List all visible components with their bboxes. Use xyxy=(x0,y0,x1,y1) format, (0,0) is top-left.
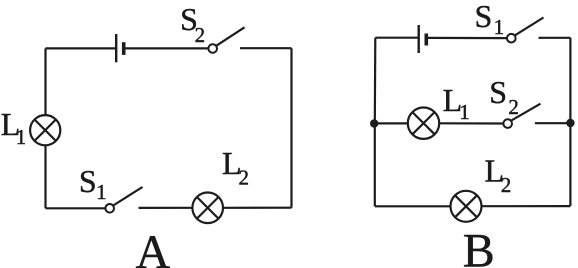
wire B middle (lamp L1 to switch S2) xyxy=(439,122,503,124)
label S1 (circuit A) xyxy=(79,163,107,204)
wire A top (battery to switch S2) xyxy=(126,47,209,49)
switch S1 (circuit B) xyxy=(507,18,544,43)
label S2 (circuit A) xyxy=(180,1,205,47)
wire A bottom-left (corner to switch S1) xyxy=(46,207,106,209)
junction dot left (circuit B) xyxy=(370,119,378,127)
wire A top-right (switch to corner) xyxy=(240,47,292,49)
label L2 (circuit A) xyxy=(222,145,249,190)
svg-text:1: 1 xyxy=(459,100,470,124)
svg-text:1: 1 xyxy=(494,15,505,39)
svg-text:1: 1 xyxy=(96,180,107,204)
switch S1 (circuit A) xyxy=(105,187,142,213)
switch S2 (circuit B) xyxy=(503,104,540,128)
label L1 (circuit A) xyxy=(1,106,27,149)
label L2 (circuit B) xyxy=(485,153,512,197)
wire B bottom-right (corner to lamp L2) xyxy=(482,205,571,207)
lamp L2 (circuit A) xyxy=(192,193,223,224)
wire B middle-left (junction to lamp L1) xyxy=(375,122,408,124)
svg-text:S: S xyxy=(79,163,97,199)
battery cell circuit A xyxy=(116,34,124,62)
wire B right upper xyxy=(569,38,571,123)
junction dot right (circuit B) xyxy=(566,119,574,127)
svg-text:2: 2 xyxy=(508,95,519,119)
wire B left lower xyxy=(374,123,376,206)
battery cell circuit B xyxy=(419,25,427,53)
lamp L1 (circuit B) xyxy=(408,108,439,139)
wire B right lower xyxy=(569,123,571,206)
wire A left lower (corner to lamp L1) xyxy=(44,145,46,208)
svg-text:2: 2 xyxy=(501,173,512,197)
lamp L2 (circuit B) xyxy=(451,191,482,222)
svg-text:1: 1 xyxy=(16,125,26,149)
wire B bottom-left (lamp L2 to corner) xyxy=(375,205,451,207)
wire B top-left (corner to battery) xyxy=(375,37,418,39)
svg-text:S: S xyxy=(475,0,493,34)
label L1 (circuit B) xyxy=(443,82,470,124)
wire A bottom (lamp L2 to switch S1) xyxy=(139,207,193,209)
wire B top (battery to switch S1) xyxy=(428,37,507,39)
svg-text:S: S xyxy=(489,74,507,110)
label S2 (circuit B) xyxy=(489,74,519,119)
wire A left upper (lamp L1 to corner) xyxy=(44,48,46,115)
wire B middle-right (switch S2 to junction) xyxy=(535,122,571,124)
lamp L1 (circuit A) xyxy=(30,115,60,145)
wire B left upper xyxy=(374,38,377,124)
wire A top-left (corner to battery) xyxy=(46,47,117,49)
svg-text:B: B xyxy=(463,225,495,268)
label S1 (circuit B) xyxy=(475,0,505,39)
svg-text:2: 2 xyxy=(195,23,206,47)
svg-text:2: 2 xyxy=(239,166,250,190)
wire B top-right (switch to corner) xyxy=(539,37,571,39)
wire A bottom-right (corner to lamp L2) xyxy=(223,207,292,209)
switch S2 (circuit A) xyxy=(208,27,244,53)
svg-text:A: A xyxy=(136,226,171,268)
wire A right side xyxy=(290,48,292,208)
